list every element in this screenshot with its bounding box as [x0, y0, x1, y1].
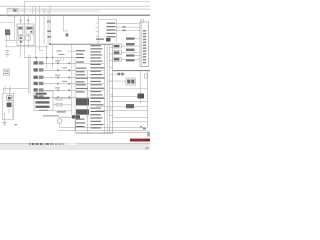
- wire X2 out b: [53, 98, 72, 101]
- wire ignition feeds: [47, 11, 50, 44]
- wire lamp stem: [58, 123, 61, 127]
- wire pump ground stem: [3, 113, 6, 122]
- wire ladder continuations: [76, 63, 104, 98]
- wire sensor link 2: [117, 26, 141, 29]
- red progress bar: [130, 139, 150, 142]
- table divider vertical 1: [86, 70, 89, 134]
- inline connector boxes: [56, 97, 62, 100]
- connector arrows: [123, 26, 126, 28]
- short drops on rail: [57, 58, 59, 61]
- wire F1 feed: [19, 15, 22, 24]
- transistor Q1: [118, 73, 121, 76]
- table divider vertical 4: [108, 44, 111, 134]
- wire X2 out c: [53, 104, 72, 107]
- wire cross link 2: [5, 46, 49, 49]
- table divider vertical 2: [103, 44, 106, 134]
- wire drop to row3: [51, 44, 54, 68]
- wire header feed: [49, 43, 113, 46]
- node J3: [52, 57, 54, 59]
- feed tick marks: [20, 20, 22, 21]
- connector row CR1: [34, 61, 38, 64]
- wire lamp return: [59, 126, 145, 129]
- status bar icons: [30, 143, 54, 145]
- wire main supply bus: [0, 15, 150, 16]
- wire coil bottom: [139, 99, 142, 105]
- wire row3: [44, 76, 76, 79]
- margin tick box: [145, 74, 148, 78]
- terminal X2 row b: [36, 97, 50, 99]
- wire link B stub: [39, 49, 44, 52]
- wire sensor link 3: [117, 29, 141, 32]
- wire right run 1: [110, 100, 148, 103]
- wire vertical riser 2: [75, 117, 78, 130]
- wire driver feed: [108, 80, 126, 83]
- table divider vertical 3: [106, 44, 109, 134]
- dark separator line right: [113, 69, 151, 72]
- wire sensor link 1: [117, 22, 141, 25]
- wire coil top: [139, 72, 142, 94]
- wire drop B: [38, 6, 41, 50]
- relay module housing: [17, 24, 34, 46]
- ground mark bottom right: [140, 126, 142, 128]
- wire injector feed 2: [122, 51, 141, 54]
- splice marks upper: [47, 20, 49, 22]
- wire sensor jog: [63, 30, 67, 33]
- terminal X2 row d: [36, 106, 50, 108]
- wire label dashes mid: [55, 60, 67, 88]
- wire bottom run 1: [58, 129, 148, 132]
- connector terminal T1: [66, 34, 69, 37]
- resistor R1 block: [72, 115, 80, 118]
- wire row4: [44, 83, 76, 86]
- inline connector CN1: [19, 36, 24, 41]
- label box left margin: [3, 69, 9, 76]
- connector row CR6: [34, 95, 38, 98]
- ground G2: [3, 121, 7, 124]
- ECU inner rail: [141, 22, 144, 67]
- relay K2 coil mark: [27, 27, 33, 29]
- wire drop to row1: [35, 58, 38, 62]
- wire pump internal: [8, 101, 11, 103]
- injector row blocks: [113, 44, 122, 61]
- junction dot header: [49, 43, 51, 45]
- status bar pill: [65, 143, 77, 145]
- wire right run 5: [113, 120, 148, 123]
- wire trunk vertical: [23, 1, 26, 26]
- connector row CR4: [34, 82, 38, 85]
- relay K1 coil mark: [19, 27, 23, 29]
- top tee rail: [98, 18, 117, 21]
- status bar: [0, 143, 150, 150]
- wire pair to pump: [27, 55, 30, 94]
- wire right rail top: [113, 88, 148, 91]
- splice S1: [47, 31, 51, 33]
- ecu pin stub ticks: [110, 47, 113, 122]
- pin list column labels: [76, 50, 88, 92]
- wire relay feeds: [14, 15, 17, 40]
- table header block: [106, 38, 111, 42]
- page margin right vertical: [146, 70, 149, 128]
- wire right run 4: [113, 116, 148, 119]
- dark line mid bottom: [43, 115, 59, 118]
- ladder wire connector ticks: [57, 62, 70, 98]
- fuel pump M1 housing: [3, 94, 14, 120]
- driver module A1: [126, 78, 136, 85]
- connector row CR3: [34, 76, 38, 79]
- wire bus line 3: [7, 10, 100, 13]
- pin list label block A: [76, 98, 89, 105]
- ECU pins: [143, 30, 146, 63]
- wire pump leads: [5, 35, 8, 46]
- wire right run 3: [96, 109, 148, 112]
- wire bus line 1: [0, 5, 150, 8]
- table bottom edge: [76, 132, 113, 135]
- wire vertical riser: [71, 44, 74, 117]
- node J1: [36, 57, 38, 59]
- wire coil feed: [110, 95, 138, 98]
- ECU U1 housing: [140, 22, 149, 67]
- connector row CR5: [34, 88, 38, 91]
- wire pump feed: [8, 88, 11, 96]
- wire X2 out d: [53, 110, 72, 113]
- terminal strip X2: [34, 91, 53, 111]
- pin list label block B: [76, 109, 89, 114]
- transistor Q2: [121, 73, 124, 76]
- label text small left: [39, 110, 49, 111]
- splice S2: [47, 36, 51, 38]
- scroll widget top-right of bar: [147, 131, 150, 136]
- wire bus line 2: [7, 8, 150, 11]
- table header label: [96, 39, 104, 40]
- table right edge: [111, 44, 114, 134]
- wire bottom run 2: [76, 131, 148, 134]
- battery G1: [5, 50, 9, 53]
- wire top frame line: [24, 0, 150, 3]
- warning lamp H1: [57, 119, 62, 124]
- wire row2: [44, 69, 76, 72]
- connector row CR2: [34, 68, 38, 71]
- wire Q link: [113, 73, 126, 76]
- pump filter element: [7, 103, 12, 108]
- stray label dashes: [57, 51, 62, 52]
- wire row5: [44, 89, 76, 92]
- relay K1 body: [18, 27, 23, 36]
- relay blocks col2: [126, 38, 135, 62]
- wire drop to row2: [45, 44, 48, 68]
- diode module V1: [126, 104, 134, 108]
- wire injector feed 3: [122, 58, 141, 61]
- relay K2 contact dot: [30, 31, 32, 33]
- ignition coil T2: [138, 94, 145, 99]
- relay K2 body: [26, 27, 33, 35]
- pump motor M2 striped block: [5, 30, 10, 36]
- wire distribution rail: [24, 56, 75, 59]
- wire drop C: [43, 9, 46, 44]
- node J2: [46, 57, 48, 59]
- sensor list rows top right: [107, 23, 116, 38]
- wire row1: [44, 62, 76, 65]
- wire drop A: [31, 6, 34, 15]
- wire bus line 5: [0, 21, 14, 24]
- wire header drop: [97, 16, 100, 44]
- wire right run 2: [96, 105, 148, 108]
- wire lamp feed: [59, 116, 73, 119]
- wire end hook: [143, 128, 146, 130]
- wire vertical riser b / table left border: [74, 58, 77, 134]
- capacitor C1 legs: [3, 87, 29, 90]
- wire cross link 1: [5, 39, 17, 42]
- wire row6: [44, 96, 76, 99]
- pin list wire codes: [90, 45, 104, 128]
- wire short link right: [68, 50, 77, 53]
- terminal X2 row a: [36, 93, 47, 95]
- status bar blue mark: [145, 147, 148, 149]
- pump inner divider: [11, 95, 13, 118]
- pump motor element: [7, 96, 12, 101]
- terminal X2 row c: [36, 101, 50, 103]
- sensor column right edge: [115, 19, 118, 42]
- pin list lower labels: [76, 119, 86, 128]
- inline connector CN2: [26, 36, 31, 40]
- wire drop A2: [34, 6, 37, 58]
- wire col2 links: [135, 37, 141, 40]
- junction box top left: [7, 8, 18, 16]
- ECU top tab: [141, 20, 144, 23]
- header drop ticks: [96, 23, 98, 37]
- wire injector feed 1: [122, 45, 141, 48]
- wire F2 feed: [27, 15, 30, 24]
- wire sensor drop: [62, 16, 65, 31]
